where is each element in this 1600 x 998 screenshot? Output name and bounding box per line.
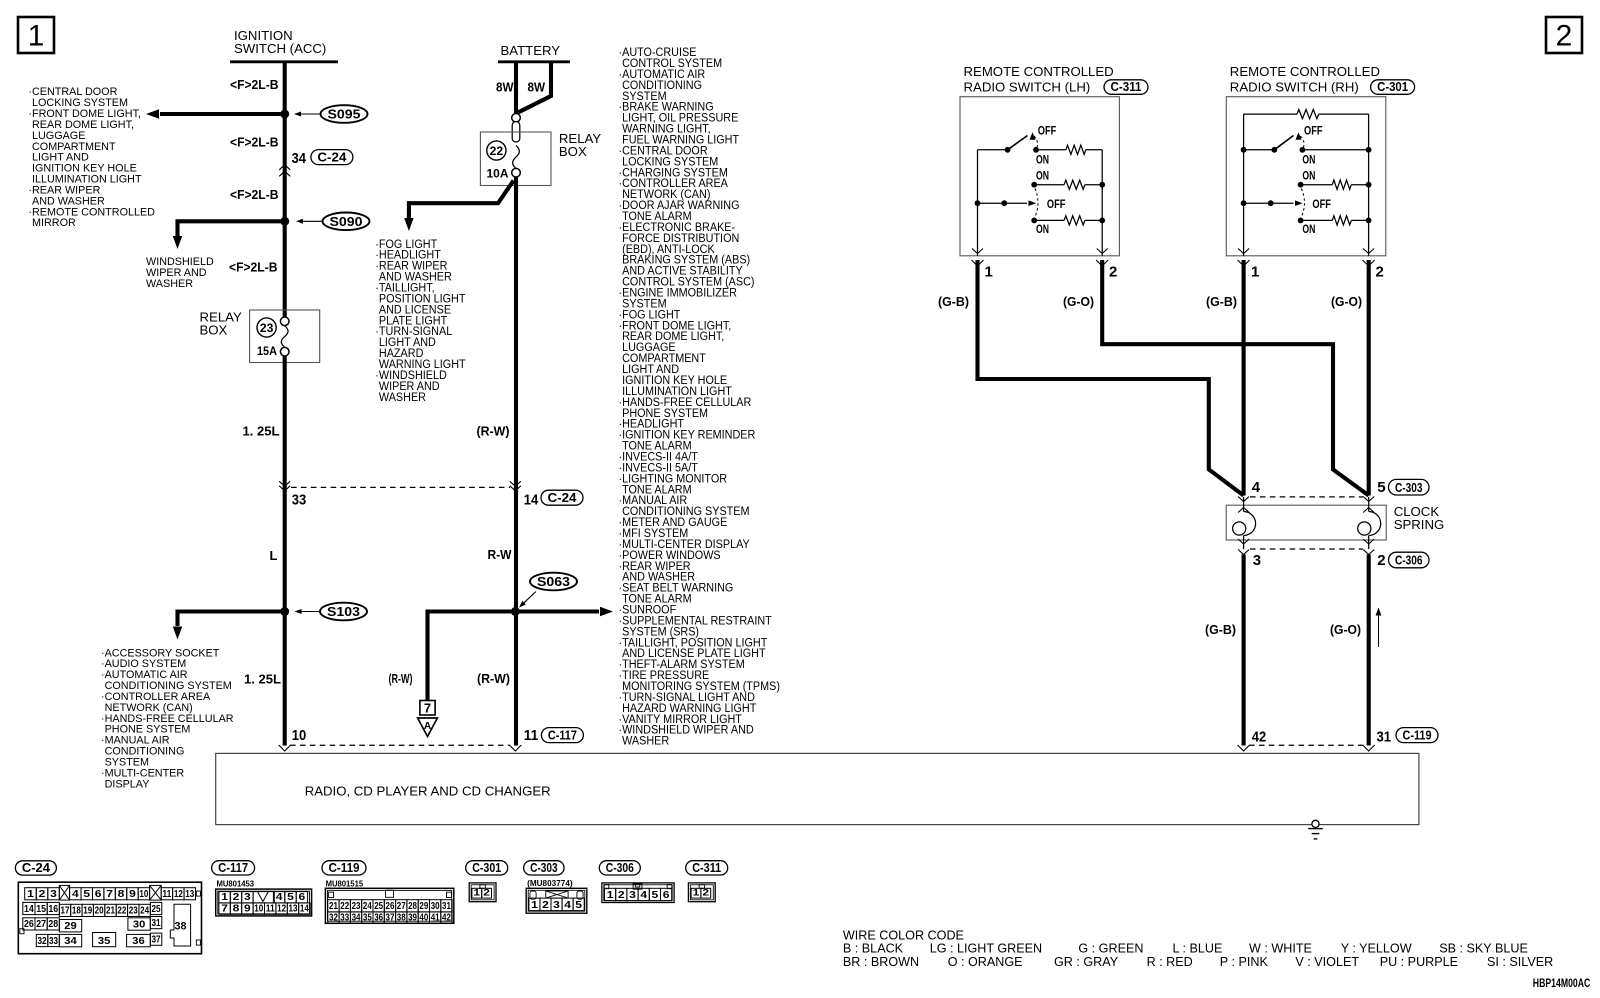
svg-text:2: 2	[1377, 552, 1385, 569]
switch RH OFF row wire	[1241, 200, 1303, 206]
radio connector pin 11 marker	[524, 727, 584, 744]
connector C-303 label (footer)	[524, 861, 565, 875]
svg-text:10: 10	[254, 904, 263, 915]
wire label <F>2L-B (3)	[230, 187, 279, 202]
switch LH pin1 fork	[972, 249, 984, 267]
direction arrow up	[1376, 608, 1382, 648]
svg-text:9: 9	[129, 889, 136, 900]
svg-text:SWITCH (ACC): SWITCH (ACC)	[234, 41, 326, 56]
fork at radio pin 42	[1238, 745, 1250, 751]
connector box C-301 (header)	[1371, 80, 1415, 95]
dashed connector line C-303 row	[1250, 496, 1363, 498]
svg-text:27: 27	[36, 919, 46, 930]
switch RH ON label (row2)	[1302, 171, 1315, 183]
switch LH pin 2 label	[1109, 264, 1117, 281]
switch LH ON node (row1)	[1033, 147, 1039, 153]
svg-text:13: 13	[289, 904, 298, 915]
wire label (G-B) lower	[1205, 622, 1236, 637]
wire color code line 1	[843, 942, 1528, 956]
svg-text:41: 41	[431, 913, 440, 924]
wire LH pin1 to clock spring pin 4	[978, 260, 1244, 496]
inline connector chevrons at C-24 pin 33	[279, 481, 290, 491]
svg-text:1. 25L: 1. 25L	[243, 424, 280, 439]
fuse 23 element	[280, 317, 289, 356]
svg-text:28: 28	[48, 919, 58, 930]
svg-text:C-306: C-306	[606, 860, 634, 875]
svg-text:10: 10	[292, 727, 307, 744]
wire label 8W (2)	[528, 80, 546, 95]
wire clock spring pin2 to radio pin 31	[1367, 555, 1371, 746]
svg-text:GR : GRAY: GR : GRAY	[1054, 955, 1119, 969]
svg-text:1: 1	[28, 20, 45, 53]
svg-text:MU801453: MU801453	[217, 878, 255, 888]
radio pin 31 marker	[1377, 727, 1439, 745]
switch LH right bus wire	[1101, 150, 1103, 256]
svg-text:22: 22	[340, 901, 349, 912]
junction S090	[280, 217, 289, 226]
drawing number HBP14M00AC	[1533, 976, 1591, 990]
switch RH pin1 fork	[1238, 249, 1250, 267]
svg-text:BOX: BOX	[200, 323, 228, 338]
svg-text:2: 2	[1109, 264, 1117, 281]
svg-text:6: 6	[663, 890, 670, 901]
wire battery feed below fuse	[514, 177, 518, 746]
svg-text:9: 9	[244, 904, 251, 915]
svg-text:23: 23	[129, 906, 138, 917]
wire label (G-O) RH	[1331, 294, 1362, 309]
wire ACC feed vertical (lower)	[283, 356, 287, 746]
svg-text:RADIO SWITCH (LH): RADIO SWITCH (LH)	[964, 80, 1091, 95]
svg-text:31: 31	[152, 918, 161, 929]
svg-text:MIRROR: MIRROR	[32, 217, 76, 229]
svg-text:P : PINK: P : PINK	[1220, 955, 1269, 969]
svg-text:21: 21	[329, 901, 338, 912]
svg-text:G : GREEN: G : GREEN	[1078, 942, 1143, 956]
svg-text:1. 25L: 1. 25L	[244, 672, 281, 687]
switch RH left bus wire	[1243, 114, 1245, 256]
svg-text:1: 1	[607, 890, 614, 901]
wire label <F>2L-B (2)	[230, 134, 279, 149]
svg-text:<F>2L-B: <F>2L-B	[230, 77, 279, 92]
svg-text:R-W: R-W	[488, 547, 513, 562]
wire color code heading	[843, 929, 964, 943]
connector C-306 pinout drawing	[602, 883, 674, 903]
svg-text:V : VIOLET: V : VIOLET	[1295, 955, 1359, 969]
wire label <F>2L-B (4)	[229, 260, 278, 275]
switch LH ON label (row1)	[1036, 154, 1049, 166]
svg-text:5: 5	[83, 889, 90, 900]
connector C-303 pinout drawing	[526, 888, 587, 913]
fork at clock spring pin 5 top	[1363, 497, 1374, 502]
svg-text:26: 26	[24, 919, 34, 930]
connector C-303 part number	[527, 878, 573, 888]
svg-text:39: 39	[408, 913, 417, 924]
svg-text:(R-W): (R-W)	[477, 671, 510, 686]
list fog light headlight etc	[375, 238, 465, 404]
svg-text:37: 37	[152, 935, 161, 946]
battery wire 8W left	[514, 62, 518, 115]
wire branch to accessory socket systems	[173, 612, 285, 640]
clock spring pin 2 label	[1377, 552, 1385, 569]
svg-text:32: 32	[38, 936, 47, 947]
svg-text:PU : PURPLE: PU : PURPLE	[1380, 955, 1458, 969]
list radio-controlled systems (center)	[619, 47, 781, 748]
svg-text:15A: 15A	[257, 344, 277, 358]
svg-text:OFF: OFF	[1038, 125, 1057, 137]
fork at radio pin 31	[1363, 745, 1375, 751]
svg-text:(G-B): (G-B)	[1206, 294, 1237, 309]
switch RH pin 2 label	[1376, 264, 1384, 281]
svg-text:ON: ON	[1036, 224, 1049, 236]
svg-text:<F>2L-B: <F>2L-B	[230, 134, 279, 149]
svg-text:23: 23	[352, 901, 361, 912]
radio connector pin 10 label	[292, 727, 307, 744]
svg-text:35: 35	[363, 913, 372, 924]
svg-text:25: 25	[374, 901, 383, 912]
wire label L	[270, 548, 278, 563]
switch LH outline	[960, 97, 1119, 256]
svg-text:C-117: C-117	[548, 727, 577, 742]
svg-text:4: 4	[1252, 479, 1261, 496]
label REMOTE CONTROLLED RADIO SWITCH (RH)	[1230, 64, 1380, 95]
svg-text:ON: ON	[1302, 224, 1315, 236]
switch LH pin 1 label	[985, 264, 993, 281]
connector C-24 pin 34 marker	[292, 149, 353, 167]
svg-text:OFF: OFF	[1304, 125, 1323, 137]
clock spring box outline	[1226, 505, 1386, 540]
svg-text:RADIO, CD PLAYER AND CD CHANGE: RADIO, CD PLAYER AND CD CHANGER	[305, 783, 551, 798]
svg-text:33: 33	[49, 936, 58, 947]
dashed connector line radio right	[1249, 744, 1363, 746]
svg-text:10A: 10A	[487, 167, 509, 181]
svg-text:C-119: C-119	[329, 860, 360, 875]
fork at clock spring pin 4 top	[1238, 497, 1249, 502]
switch RH dashed throw arc (middle)	[1301, 189, 1304, 217]
switch RH row4 node	[1298, 218, 1304, 224]
switch RH right bus wire	[1368, 114, 1370, 256]
svg-text:4: 4	[640, 890, 647, 901]
relay box 22 outline	[480, 132, 551, 186]
svg-text:24: 24	[363, 901, 372, 912]
svg-text:1: 1	[693, 887, 701, 898]
svg-text:REMOTE CONTROLLED: REMOTE CONTROLLED	[964, 64, 1114, 79]
connector box C-311 (header)	[1104, 80, 1148, 95]
wire label (G-O) lower	[1330, 622, 1361, 637]
switch RH pivot dot	[1271, 147, 1277, 153]
svg-text:B : BLACK: B : BLACK	[843, 942, 904, 956]
svg-text:3: 3	[1253, 552, 1261, 569]
connector C-24 pinout drawing	[18, 882, 201, 954]
svg-text:(G-O): (G-O)	[1331, 294, 1362, 309]
switch LH left bus wire	[977, 150, 979, 256]
switch LH pin2 fork	[1096, 249, 1108, 267]
relay box 23 outline	[250, 310, 320, 363]
svg-text:3: 3	[244, 892, 251, 903]
fuse 23 value 15A	[257, 344, 277, 358]
svg-text:8: 8	[118, 889, 125, 900]
label RADIO, CD PLAYER AND CD CHANGER	[305, 783, 551, 798]
page reference triangle A	[418, 718, 438, 737]
svg-text:3: 3	[553, 900, 560, 911]
wire branch left to triangle A page ref	[428, 612, 516, 701]
svg-text:OFF: OFF	[1312, 199, 1331, 211]
splice oval S090	[296, 213, 370, 231]
svg-text:20: 20	[95, 906, 104, 917]
switch RH pin 1 label	[1251, 264, 1259, 281]
svg-text:22: 22	[117, 906, 126, 917]
svg-text:R : RED: R : RED	[1147, 955, 1193, 969]
svg-text:30: 30	[431, 901, 440, 912]
svg-text:2: 2	[483, 887, 490, 898]
connector box C-303	[1389, 479, 1430, 495]
svg-text:C-303: C-303	[530, 860, 558, 875]
wire label (G-B) LH	[938, 294, 969, 309]
svg-text:W : WHITE: W : WHITE	[1249, 942, 1312, 956]
svg-text:C-24: C-24	[22, 860, 51, 875]
svg-text:42: 42	[1252, 729, 1267, 746]
svg-text:26: 26	[386, 901, 395, 912]
svg-text:WASHER: WASHER	[146, 278, 193, 290]
svg-text:2: 2	[702, 887, 709, 898]
switch RH ON label (row4)	[1302, 224, 1315, 236]
svg-text:33: 33	[340, 913, 349, 924]
svg-text:ON: ON	[1036, 171, 1049, 183]
wire branch to door systems	[146, 109, 285, 119]
battery wire 8W right	[516, 62, 551, 114]
wire label (G-O) LH	[1063, 294, 1094, 309]
svg-text:36: 36	[132, 936, 145, 947]
svg-text:14: 14	[300, 904, 309, 915]
svg-text:7: 7	[106, 889, 113, 900]
switch LH dashed throw arc (top)	[1034, 136, 1038, 149]
connector C-301 pinout drawing	[469, 883, 496, 902]
svg-text:(G-O): (G-O)	[1330, 622, 1361, 637]
svg-text:C-119: C-119	[1403, 727, 1432, 742]
switch RH row2 wire with resistor	[1301, 180, 1372, 189]
svg-text:10: 10	[139, 889, 148, 900]
connector C-306 label (footer)	[599, 861, 640, 875]
wire RH pin2 to clock spring pin 5	[1367, 260, 1371, 496]
svg-text:34: 34	[292, 150, 307, 167]
svg-text:(R-W): (R-W)	[389, 671, 413, 686]
connector C-119 pinout drawing	[325, 888, 453, 923]
connector C-117 pinout drawing	[216, 889, 312, 916]
connector C-24 label (footer)	[15, 861, 56, 875]
svg-text:31: 31	[1377, 729, 1392, 746]
label IGNITION SWITCH (ACC)	[234, 28, 326, 56]
svg-text:2: 2	[233, 892, 240, 903]
svg-text:C-311: C-311	[1111, 79, 1142, 94]
wire end fork at pin 10	[279, 745, 291, 751]
dashed connector line C-24 row	[291, 486, 510, 488]
svg-text:14: 14	[24, 904, 34, 915]
switch LH row1 wire with resistor	[1036, 145, 1102, 154]
label BATTERY	[501, 43, 561, 58]
wire label 1. 25L (2)	[244, 672, 281, 687]
svg-text:29: 29	[64, 921, 77, 932]
switch RH OFF label (top)	[1304, 125, 1323, 137]
fork at clock spring pin 2 bottom	[1363, 539, 1374, 555]
switch LH OFF row wire	[975, 200, 1036, 206]
switch RH row4 wire with resistor	[1301, 216, 1372, 225]
svg-text:C-117: C-117	[218, 860, 248, 875]
connector box C-306	[1389, 552, 1430, 568]
connector C-119 part number	[326, 878, 364, 888]
svg-text:S063: S063	[537, 575, 570, 589]
svg-text:30: 30	[133, 919, 146, 930]
radio cd player box outline	[216, 753, 1419, 824]
svg-text:36: 36	[374, 913, 383, 924]
inline connector chevrons at C-24 pin 34	[279, 165, 290, 177]
svg-text:21: 21	[106, 906, 115, 917]
svg-text:RADIO SWITCH (RH): RADIO SWITCH (RH)	[1230, 80, 1359, 95]
label REMOTE CONTROLLED RADIO SWITCH (LH)	[964, 64, 1114, 95]
svg-text:ON: ON	[1302, 171, 1315, 183]
list accessory socket etc	[101, 647, 234, 790]
connector C-311 label (footer)	[686, 861, 728, 875]
svg-text:3: 3	[629, 890, 636, 901]
svg-text:DISPLAY: DISPLAY	[105, 778, 150, 790]
svg-text:SPRING: SPRING	[1394, 517, 1445, 532]
connector C-301 label (footer)	[466, 861, 508, 875]
clock spring pin 5 label	[1377, 479, 1385, 496]
connector C-24 pin 14 marker	[524, 490, 583, 509]
switch LH row4 node	[1031, 218, 1037, 224]
svg-text:6: 6	[299, 892, 306, 903]
svg-text:15: 15	[36, 904, 46, 915]
svg-text:3: 3	[50, 889, 57, 900]
switch RH pivot feed wire	[1241, 147, 1275, 153]
svg-text:LG : LIGHT GREEN: LG : LIGHT GREEN	[930, 942, 1042, 956]
switch LH pivot dot	[1005, 147, 1011, 153]
svg-text:S103: S103	[327, 605, 360, 619]
svg-text:4: 4	[276, 892, 283, 903]
svg-text:1: 1	[985, 264, 993, 281]
switch RH OFF label (middle)	[1312, 199, 1331, 211]
svg-text:1: 1	[27, 889, 34, 900]
svg-text:8W: 8W	[528, 80, 546, 95]
svg-text:7: 7	[424, 701, 431, 716]
wire label 8W (1)	[496, 80, 514, 95]
wire label R-W	[488, 547, 513, 562]
svg-text:38: 38	[175, 921, 187, 933]
svg-text:42: 42	[442, 913, 451, 924]
svg-text:C-301: C-301	[472, 860, 501, 875]
connector C-119 label (footer)	[322, 861, 366, 875]
switch LH dashed throw arc (middle)	[1035, 189, 1038, 217]
svg-text:11: 11	[266, 904, 275, 915]
wire branch to fog light list	[404, 181, 513, 232]
svg-text:6: 6	[95, 889, 102, 900]
svg-text:<F>2L-B: <F>2L-B	[229, 260, 278, 275]
svg-text:18: 18	[72, 906, 81, 917]
svg-text:11: 11	[524, 727, 539, 744]
svg-text:12: 12	[174, 889, 183, 900]
switch RH ON node (row1)	[1300, 147, 1306, 153]
connector C-117 part number	[217, 878, 255, 888]
page reference box 7	[420, 701, 435, 716]
switch LH ON label (row4)	[1036, 224, 1049, 236]
svg-text:11: 11	[162, 889, 171, 900]
switch LH arm	[1008, 132, 1036, 150]
svg-text:5: 5	[287, 892, 294, 903]
svg-text:C-24: C-24	[317, 149, 347, 164]
svg-text:(G-O): (G-O)	[1063, 294, 1094, 309]
svg-text:<F>2L-B: <F>2L-B	[230, 187, 279, 202]
wire label (G-B) RH	[1206, 294, 1237, 309]
svg-text:37: 37	[386, 913, 395, 924]
svg-text:12: 12	[277, 904, 286, 915]
svg-text:MU801515: MU801515	[326, 878, 364, 888]
switch RH arm	[1274, 132, 1301, 150]
svg-text:2: 2	[39, 889, 46, 900]
svg-text:4: 4	[564, 900, 571, 911]
clock spring coil right	[1358, 497, 1381, 549]
wire label 1. 25L (1)	[243, 424, 280, 439]
label RELAY BOX (fuse 22)	[559, 131, 601, 159]
junction S095	[280, 110, 289, 119]
svg-text:L: L	[270, 548, 278, 563]
dashed connector line radio left	[290, 744, 510, 746]
svg-text:24: 24	[140, 906, 149, 917]
svg-text:C-303: C-303	[1395, 480, 1423, 495]
switch RH outline	[1226, 97, 1386, 256]
svg-text:(G-B): (G-B)	[938, 294, 969, 309]
wire color code line 2	[843, 955, 1553, 969]
svg-text:(R-W): (R-W)	[477, 424, 510, 439]
svg-text:C-311: C-311	[692, 860, 721, 875]
switch RH pin2 fork	[1363, 249, 1375, 267]
switch RH top resistor wire	[1244, 110, 1369, 119]
wire RH pin1 to clock spring pin 4	[1242, 260, 1246, 496]
svg-text:17: 17	[61, 906, 70, 917]
wire label (R-W) (2)	[389, 671, 413, 686]
wire label (R-W) (3)	[477, 671, 510, 686]
switch LH row2 wire with resistor	[1034, 180, 1105, 189]
svg-text:SI : SILVER: SI : SILVER	[1487, 955, 1553, 969]
splice oval S063	[519, 573, 577, 608]
switch RH dashed throw arc (top)	[1300, 136, 1304, 149]
svg-text:28: 28	[408, 901, 417, 912]
connector C-24 pin 33 label	[292, 492, 307, 509]
svg-text:C-24: C-24	[548, 490, 578, 505]
svg-text:2: 2	[618, 890, 625, 901]
label CLOCK SPRING	[1394, 504, 1445, 532]
svg-text:23: 23	[260, 321, 274, 335]
connector C-117 label (footer)	[212, 861, 255, 875]
svg-text:ON: ON	[1302, 154, 1315, 166]
page number 1 box	[18, 17, 54, 53]
svg-text:REMOTE CONTROLLED: REMOTE CONTROLLED	[1230, 64, 1380, 79]
junction S103	[280, 607, 289, 616]
clock spring pin 4 label	[1252, 479, 1261, 496]
switch LH pivot feed wire	[978, 149, 1008, 151]
list central door locking etc	[28, 86, 155, 229]
svg-text:ON: ON	[1036, 154, 1049, 166]
svg-text:27: 27	[397, 901, 406, 912]
switch LH ON label (row2)	[1036, 171, 1049, 183]
wire end fork at pin 11	[509, 745, 521, 751]
inline connector chevrons at C-24 pin 14	[510, 481, 521, 491]
switch LH row4 wire with resistor	[1034, 216, 1105, 225]
switch RH row2 node	[1298, 182, 1304, 188]
svg-text:35: 35	[98, 936, 111, 947]
label windshield wiper and washer	[146, 256, 214, 290]
page number 2 box	[1546, 17, 1582, 53]
ignition switch bus bar	[230, 60, 338, 63]
svg-text:31: 31	[442, 901, 451, 912]
wire LH pin2 to clock spring pin 5	[1102, 260, 1369, 496]
